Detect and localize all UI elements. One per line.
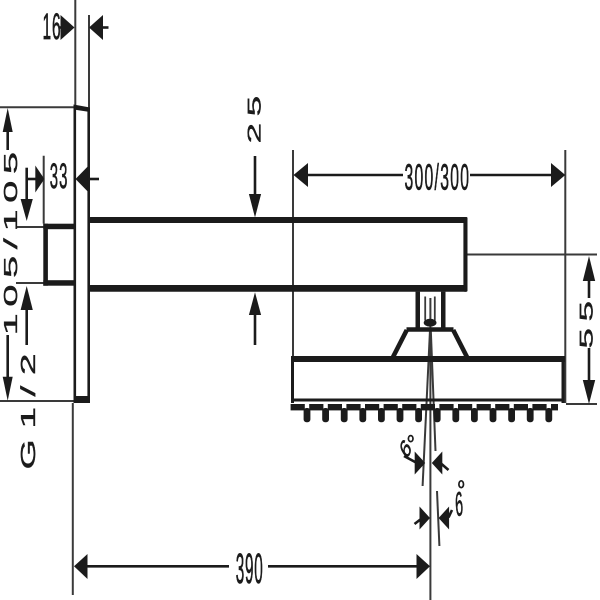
plate right side [87,110,90,400]
plate top cap [74,105,91,113]
300/300 arrows [294,163,309,187]
stem inner lines [425,297,435,321]
55 bottom ext [566,403,597,405]
390 left ext [72,403,74,595]
right spray line seg2 [437,491,439,546]
nozzle dashes [291,404,558,410]
25 dim tails [254,156,257,196]
25 arrows [249,194,261,218]
105/105 arrows [3,108,13,132]
arm bottom edge [89,285,468,292]
105/105 dim line [6,130,9,150]
ball joint stem [416,292,446,331]
300/300 right ext [564,150,566,403]
16 dim tails [59,26,64,29]
33 dim arrows [35,166,44,193]
connector box G1/2 [43,224,76,286]
16 dim arrows [61,15,75,40]
ext line left of 16 dim [74,0,76,106]
svg-text:16: 16 [43,6,62,47]
ext 105/105 top [0,106,75,108]
300/300 left ext [292,150,294,356]
55 top ext [468,254,598,256]
6deg second pair [420,507,431,530]
head left edge [291,356,294,403]
right spray line seg1 [431,330,436,451]
G1/2 tick bottom [16,282,44,284]
33 ext line [43,156,45,224]
6deg first leader right [441,464,449,471]
svg-text:25: 25 [244,89,265,143]
33 dim tails [27,178,37,181]
6deg first leader left [404,456,416,463]
shower head [291,356,565,403]
svg-text:33: 33 [50,156,69,196]
svg-text:390: 390 [236,546,264,593]
plate bottom cap [74,396,91,403]
ext 105/105 bottom [0,400,74,402]
arm top edge [89,217,468,223]
55 dim line [588,280,591,298]
300/300 dim line [305,174,403,177]
svg-text:G1/2: G1/2 [17,343,39,470]
G1/2 dim tails [25,168,28,201]
55 arrows [583,256,595,281]
shower arm [89,217,468,292]
390 arrows [74,554,88,579]
wall plate [74,105,91,404]
head right edge [562,358,565,403]
arm right edge [463,217,467,292]
spray center line [429,298,431,600]
degree circle second [459,481,464,488]
G1/2 arrows [21,199,33,221]
left spray line [423,330,430,486]
cone [393,330,468,359]
svg-text:105/105: 105/105 [1,145,22,335]
390 dim line [85,565,229,568]
nozzle stems [304,408,553,422]
6deg second leader right [449,510,453,518]
plate left side [74,106,77,403]
6deg first pair [415,452,426,475]
6deg second leader left [415,519,422,524]
head bottom edge [291,399,565,402]
ball [424,319,437,327]
svg-text:55: 55 [576,294,597,348]
head top edge [291,356,565,362]
degree circle first [408,436,413,442]
ext line right of 16 dim [88,15,90,110]
svg-text:300/300: 300/300 [405,157,471,198]
G1/2 tick top [16,226,44,228]
